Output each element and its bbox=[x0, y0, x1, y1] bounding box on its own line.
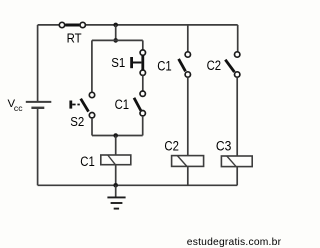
wire: drop to S1 bbox=[142, 40, 144, 49]
svg-text:estudegratis.com.br: estudegratis.com.br bbox=[187, 237, 282, 248]
wire: left rail lower (battery to bottom bus) bbox=[37, 108, 39, 186]
relay coil C1 bbox=[101, 155, 131, 165]
battery B1 (Vcc source) bbox=[26, 102, 52, 108]
wire: sub-bus to coil C1 bbox=[115, 136, 117, 156]
svg-text:C1: C1 bbox=[157, 59, 172, 74]
wire: second bus (S2 branch to S1 branch) bbox=[92, 39, 143, 41]
wire: drop to S2 bbox=[91, 40, 93, 92]
svg-text:C1: C1 bbox=[115, 97, 130, 112]
wire: contact C1 bottom to sub-bus bbox=[142, 116, 144, 136]
pushbutton S2 (normally open) bbox=[71, 92, 95, 118]
wire: coil C2 to bottom bus bbox=[187, 166, 189, 185]
svg-text:C2: C2 bbox=[207, 58, 222, 73]
svg-text:S2: S2 bbox=[70, 114, 84, 129]
relay contact C1 (middle, normally open) bbox=[134, 91, 145, 116]
svg-text:C1: C1 bbox=[80, 154, 95, 169]
ground bbox=[107, 185, 125, 208]
wire: bottom bus bbox=[38, 184, 238, 186]
wire: contact C2 to coil C3 bbox=[236, 77, 238, 156]
wire: top bus drop to right contact C1 bbox=[187, 25, 189, 52]
relay contact C2 (normally open) bbox=[225, 52, 240, 77]
relay coil C2 bbox=[172, 156, 204, 167]
svg-text:C3: C3 bbox=[216, 138, 232, 153]
wire: coil C1 to bottom bus bbox=[115, 165, 117, 186]
wire: S1 to contact C1 (middle column) bbox=[142, 75, 144, 91]
wire: top bus corner drop to contact C2 bbox=[237, 25, 239, 52]
relay coil C3 bbox=[221, 156, 252, 167]
thermal switch RT (closed contact) bbox=[59, 22, 85, 27]
relay contact C1 (right, normally open) bbox=[179, 52, 191, 77]
pushbutton S1 (normally closed) bbox=[132, 50, 146, 76]
svg-text:cc: cc bbox=[14, 103, 23, 113]
node: junction on sub-bus bbox=[113, 133, 118, 138]
wire: coil C3 to bottom bus bbox=[236, 167, 238, 186]
wire: junction drop between buses bbox=[115, 25, 117, 41]
svg-text:RT: RT bbox=[67, 32, 82, 46]
node: junction on second bus bbox=[113, 38, 118, 43]
wire: sub-bus (S2 to middle column) bbox=[92, 135, 143, 137]
wire: S2 bottom to sub-bus corner bbox=[91, 118, 93, 136]
wire: left rail upper (top bus to battery) bbox=[37, 25, 39, 101]
wire: top bus from left rail to right column bbox=[38, 24, 238, 26]
node: junction at ground bbox=[113, 183, 118, 188]
svg-text:C2: C2 bbox=[164, 138, 179, 153]
svg-text:S1: S1 bbox=[111, 55, 125, 70]
node: junction on top bus bbox=[113, 23, 118, 28]
wire: right contact C1 to coil C2 bbox=[187, 77, 189, 155]
